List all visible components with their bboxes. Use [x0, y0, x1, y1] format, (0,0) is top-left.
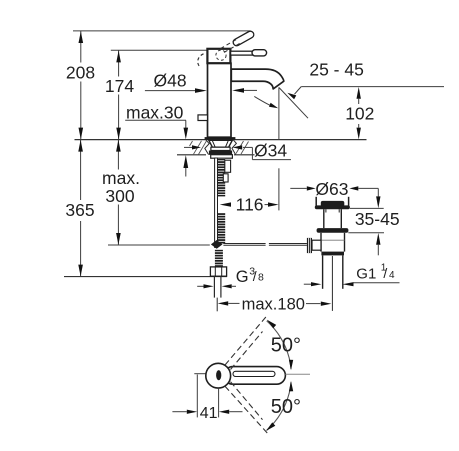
faucet body column — [208, 63, 232, 137]
Ø34 underline — [252, 159, 291, 161]
raised lever dashed edges — [221, 40, 237, 49]
Ø48 counter arrow (right side pointing left) — [232, 88, 244, 93]
mounting plate under counter — [211, 155, 233, 159]
dimension max.300 line — [117, 140, 119, 245]
svg-text:max.180: max.180 — [242, 295, 305, 313]
drain cup rim left wall — [315, 197, 317, 206]
drain plug cap (dark) — [321, 201, 345, 207]
counter hatching right — [236, 141, 249, 154]
counter hatching left — [190, 141, 207, 155]
svg-text:4: 4 — [389, 270, 395, 281]
svg-text:G: G — [236, 268, 249, 286]
max.30 arrow down to counter top — [185, 120, 187, 128]
counter bottom line left segment — [177, 154, 206, 156]
flexible supply hose (braided, upper) — [218, 158, 226, 196]
svg-text:365: 365 — [65, 200, 94, 220]
handle lever (top view) — [224, 367, 285, 385]
Ø63 dimension — [290, 187, 307, 189]
threaded connector below — [215, 250, 223, 267]
Ø48 leader with right arrow — [145, 90, 195, 92]
top reference line (208 height) — [73, 30, 251, 32]
drain plug neck — [323, 209, 325, 228]
dashed lever rotated up 50deg — [225, 315, 268, 366]
dimension max.300 arrows — [116, 140, 121, 152]
max.30 arrow up to counter bottom — [183, 155, 188, 168]
svg-text:25 - 45: 25 - 45 — [309, 59, 363, 79]
25-45 reference line (102 top) — [301, 86, 444, 88]
svg-text:8: 8 — [258, 272, 264, 284]
drain knob collar — [312, 240, 321, 250]
svg-text:208: 208 — [66, 62, 95, 82]
drain centerline — [331, 256, 333, 311]
dimension 208 arrows — [79, 31, 84, 43]
flexible supply hose (braided, lower) — [218, 213, 226, 244]
dimension 365 line — [80, 140, 82, 276]
svg-text:/: / — [253, 268, 257, 284]
Ø34 leader arrows — [184, 146, 192, 148]
25-45 leader arrow to spout outlet — [295, 87, 302, 95]
svg-text:41: 41 — [200, 405, 218, 422]
drain cup rolled edge (dark) — [315, 205, 350, 209]
lever slot — [233, 371, 275, 376]
svg-text:/: / — [383, 265, 387, 281]
rod coupling diamond — [211, 240, 223, 249]
max.30 leader underline — [125, 119, 186, 121]
dimension 41 — [196, 375, 198, 418]
svg-text:G1: G1 — [356, 266, 376, 283]
faucet base circle (top view) — [206, 363, 231, 388]
hole break line right — [232, 140, 236, 155]
pop-up linkage rod to drain — [223, 243, 265, 245]
lever slot through base (dark oval) — [216, 370, 221, 380]
svg-text:max.30: max.30 — [126, 102, 184, 122]
G1 1/4 leader underline — [354, 282, 400, 284]
svg-text:Ø34: Ø34 — [254, 141, 287, 161]
svg-text:50°: 50° — [271, 396, 301, 418]
drain coupling band (dark) — [321, 252, 344, 256]
shank collar — [211, 147, 230, 150]
dimension 174 arrows — [116, 51, 121, 63]
supply pipe centerline — [216, 298, 218, 312]
hose fitting tab upper — [225, 160, 231, 172]
dimension 208 line — [80, 31, 82, 139]
supply pipe — [213, 276, 215, 297]
drain cup rim right wall — [348, 197, 350, 206]
svg-text:116: 116 — [236, 194, 264, 214]
counter top line — [75, 139, 367, 141]
cartridge cap — [207, 49, 230, 63]
counter bottom line right segment — [234, 154, 255, 156]
drain body — [320, 233, 322, 252]
stream vertical line from spout — [278, 87, 280, 139]
stream swivel arc arrow — [254, 96, 271, 106]
handle centerline right — [285, 373, 310, 375]
reference line 174 (lever top) — [111, 49, 208, 51]
35-45 dimension — [350, 207, 384, 209]
svg-text:102: 102 — [345, 104, 374, 124]
pop-up rod (vertical) — [215, 158, 218, 247]
raised lever paddle (dashed position, outlined) — [232, 30, 255, 47]
svg-text:Ø48: Ø48 — [154, 71, 187, 91]
dimension 174 line — [118, 50, 120, 139]
drain rod knob (knurled) — [307, 238, 312, 253]
stream angle diagonal — [279, 88, 308, 119]
dimension 102 — [357, 87, 361, 99]
max.300 extension line (left of diamond) — [108, 244, 210, 246]
dashed lever rotated down 50deg — [225, 386, 270, 435]
drain flange (dark) — [317, 228, 349, 233]
dashed pivot arc inside cap — [216, 50, 226, 60]
body base lip — [205, 137, 236, 140]
svg-text:300: 300 — [105, 186, 134, 206]
svg-text:max.: max. — [102, 168, 140, 188]
supply nut G3/8 — [210, 267, 226, 276]
dimension max.180 — [218, 301, 229, 305]
hose fitting tab lower — [223, 174, 228, 182]
mounting washer (dark) — [209, 151, 232, 155]
svg-text:Ø63: Ø63 — [315, 179, 348, 199]
svg-text:174: 174 — [105, 76, 134, 96]
svg-text:35-45: 35-45 — [355, 209, 400, 229]
escutcheon flange — [209, 140, 233, 147]
dimension 116 — [220, 202, 231, 206]
temperature limiter tab on body — [198, 115, 208, 121]
lower 50deg arc — [267, 382, 291, 430]
upper 50deg arc — [267, 321, 291, 369]
dimension 365 arrows — [78, 140, 83, 152]
lever paddle tip — [252, 50, 267, 56]
dashed arc left of cap (raised lever base) — [198, 54, 204, 67]
faucet spout — [231, 69, 283, 89]
hole break line left — [205, 140, 209, 155]
handle centerline left tick — [194, 373, 206, 375]
bottom reference line (365 end) — [64, 276, 227, 278]
drain tailpipe — [322, 256, 324, 289]
G3/8 arrows — [197, 285, 203, 287]
svg-text:50°: 50° — [271, 334, 301, 356]
lever rod (horizontal position) — [231, 51, 254, 55]
G1 1/4 arrows — [304, 283, 311, 285]
